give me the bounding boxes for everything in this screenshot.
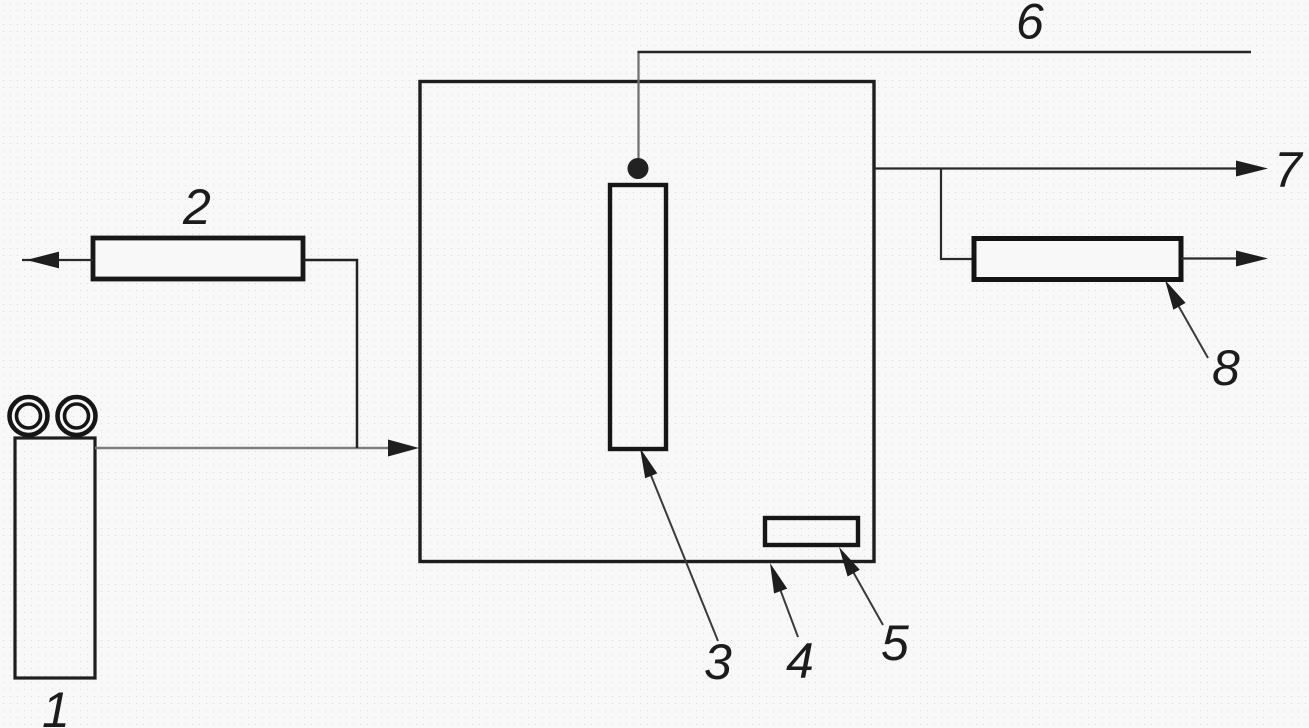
svg-text:3: 3	[704, 634, 732, 690]
trap 8 (rectangle)	[974, 239, 1181, 280]
reactor chamber 4 (large box)	[420, 82, 874, 562]
pointer arrow to trap 8	[1165, 280, 1208, 358]
svg-text:4: 4	[786, 633, 814, 689]
wire from rotameter 2 down to inlet wire	[303, 260, 357, 448]
outlet wire 7 from chamber	[874, 161, 1268, 177]
outlet arrow from trap 8	[1181, 251, 1268, 267]
label 4	[786, 633, 814, 689]
label 7	[1274, 142, 1304, 198]
svg-text:2: 2	[182, 179, 211, 235]
label 8	[1212, 340, 1240, 396]
electrode 3 (tall rectangle inside chamber)	[610, 185, 666, 449]
cylinder valve right (double circle)	[58, 397, 96, 435]
pointer arrow to chamber wall 4	[770, 563, 798, 637]
label 6	[1016, 0, 1044, 50]
arrow into chamber	[388, 440, 419, 457]
cylinder valve left (double circle)	[10, 397, 48, 435]
svg-text:6: 6	[1016, 0, 1044, 50]
wire arrow out left from rotameter 2	[22, 252, 93, 269]
ball electrode (filled circle)	[628, 158, 649, 179]
gas cylinder 1 (body)	[15, 438, 95, 678]
rotameter 2 (rectangle)	[93, 238, 303, 279]
pointer arrow to heater 5	[839, 547, 883, 625]
svg-text:5: 5	[881, 615, 909, 671]
label 5	[881, 615, 909, 671]
pointer arrow to electrode 3	[640, 448, 718, 641]
heater 5 (small rectangle inside chamber)	[765, 518, 858, 545]
line 6 (horizontal wire at top)	[638, 51, 1252, 53]
wire from cylinder to chamber	[95, 447, 392, 449]
svg-text:1: 1	[42, 682, 70, 728]
label 2	[182, 179, 211, 235]
svg-text:7: 7	[1274, 142, 1304, 198]
svg-text:8: 8	[1212, 340, 1240, 396]
label 3	[704, 634, 732, 690]
suspension wire from line 6 to ball	[637, 52, 639, 160]
label 1	[42, 682, 70, 728]
branch wire down to trap 8	[941, 169, 974, 260]
